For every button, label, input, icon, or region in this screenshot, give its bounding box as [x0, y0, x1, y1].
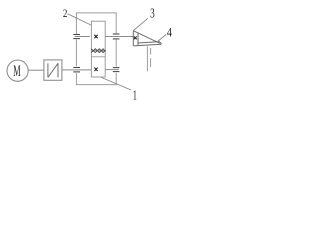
leader line for label 2: [68, 14, 92, 25]
bearing right wall output stub lower bar: [113, 71, 120, 73]
coupling right inner bar: [57, 63, 59, 77]
upper shaft right segment to bevel pinion: [106, 36, 134, 38]
bevel pinion bottom cone edge: [134, 44, 162, 46]
housing top edge: [76, 12, 117, 14]
svg-text:3: 3: [150, 6, 155, 21]
lower shaft right stub: [106, 69, 119, 71]
coupling left inner bar: [47, 63, 49, 77]
leader line for label 3: [133, 18, 148, 30]
housing right wall upper segment: [115, 13, 117, 33]
lower sprocket cross mark: [94, 68, 97, 71]
shaft motor to coupling: [28, 69, 44, 71]
upper shaft left segment: [75, 36, 90, 38]
bevel pinion rim line: [137, 33, 139, 46]
bevel pinion large end: [132, 31, 134, 46]
chain band bottom line: [91, 56, 105, 58]
leader line for label 1: [102, 78, 132, 91]
chain case inner box: [91, 21, 105, 77]
housing bottom edge: [76, 84, 117, 86]
coupling box outline: [44, 60, 62, 80]
bevel pinion cross mark: [134, 36, 137, 39]
bearing right wall upper shaft upper bar: [113, 33, 120, 35]
bevel wheel top line: [138, 42, 159, 43]
vertical output shaft solid line: [146, 46, 148, 71]
svg-text:M: M: [13, 61, 20, 80]
housing right wall middle segment: [115, 40, 117, 67]
leader line for label 4: [157, 34, 167, 42]
bearing right wall output stub upper bar: [113, 67, 120, 69]
input shaft coupling to housing: [62, 69, 91, 71]
housing left wall upper segment: [75, 13, 77, 34]
bearing left wall upper shaft lower bar: [73, 38, 80, 40]
svg-text:4: 4: [167, 25, 173, 39]
vertical output shaft dash upper: [150, 48, 152, 55]
bearing right wall upper shaft lower bar: [113, 38, 120, 40]
svg-text:2: 2: [63, 6, 68, 20]
upper sprocket cross mark: [94, 35, 97, 38]
chain link zigzag 1: [91, 49, 105, 53]
bearing left wall input shaft upper bar: [73, 67, 80, 69]
svg-text:1: 1: [133, 88, 137, 103]
coupling diagonal: [48, 63, 58, 77]
housing right wall lower segment: [115, 73, 117, 85]
chain link zigzag 2: [91, 49, 105, 53]
bevel pinion top cone edge: [133, 31, 160, 44]
vertical output shaft dash lower: [150, 58, 152, 67]
housing left wall lower segment: [75, 73, 77, 84]
bevel wheel right closing edge: [159, 42, 161, 45]
housing left wall middle segment: [75, 40, 77, 67]
chain band top line: [91, 50, 105, 52]
bearing left wall input shaft lower bar: [73, 71, 80, 73]
motor M1 circle: [7, 60, 28, 81]
bearing left wall upper shaft upper bar: [73, 34, 80, 36]
